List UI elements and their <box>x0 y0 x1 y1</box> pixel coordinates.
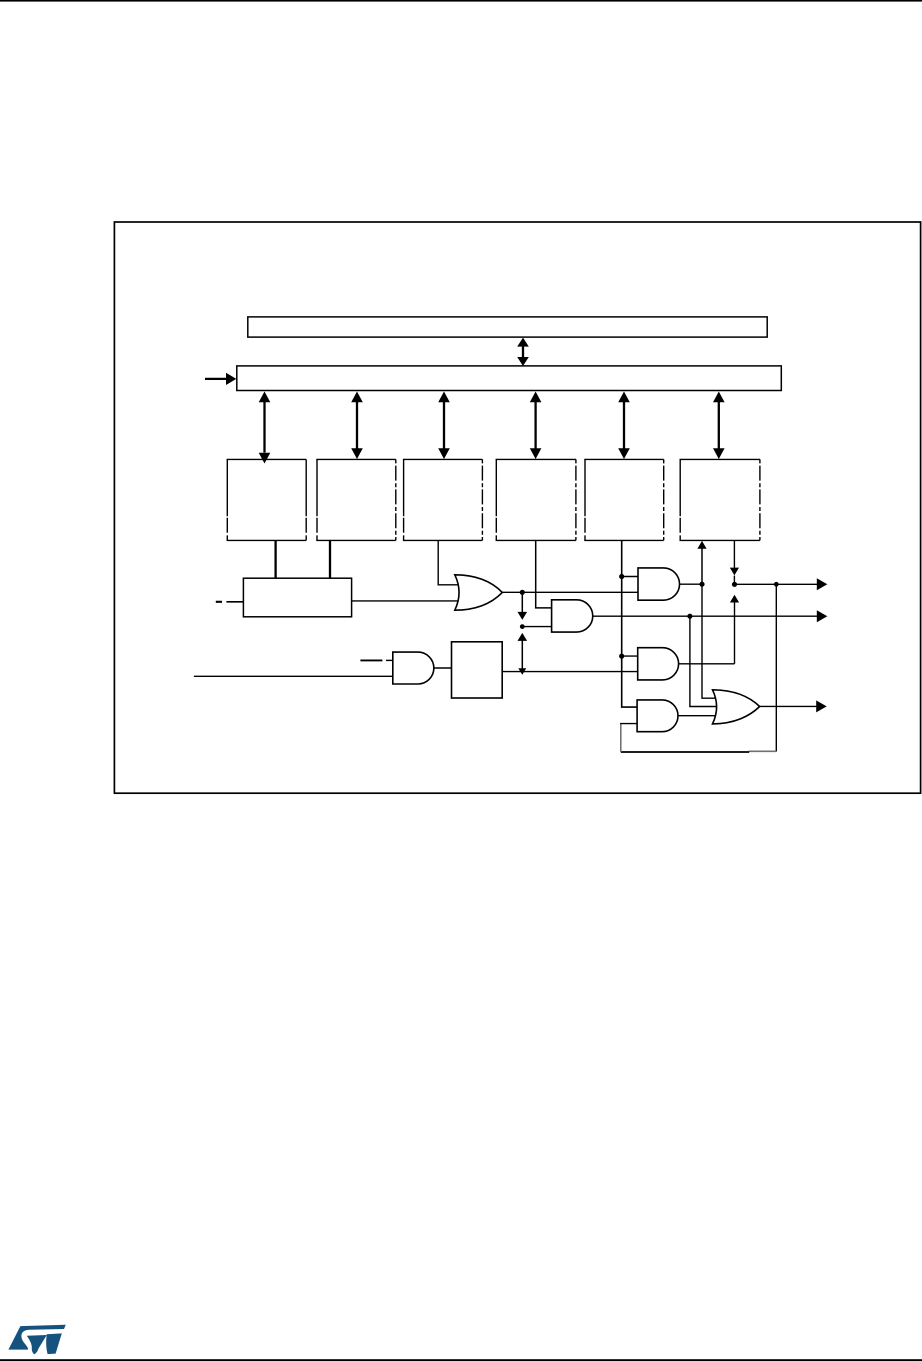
junction dot node 626 <box>520 624 525 629</box>
wire node to AND3 top input <box>622 655 638 657</box>
junction dot AND2 line <box>687 614 692 619</box>
AND gate U2 <box>552 600 593 632</box>
wire AND2 output line to output arrow 2 <box>593 610 828 622</box>
wire box5 long vertical to AND4 top input <box>622 540 637 707</box>
register box 3 <box>403 459 483 540</box>
figure frame <box>114 222 920 793</box>
wire node down to OR2 top input <box>702 584 718 698</box>
AND gate U7 <box>393 652 434 684</box>
bus double arrow 4 <box>530 392 542 460</box>
wire AND4 output to OR2 bottom input <box>678 715 718 717</box>
wire OR1 output to AND1 <box>500 591 638 593</box>
wire box2 to prescaler <box>329 540 331 578</box>
register box 6 <box>680 459 760 540</box>
wire box3 down to OR1 top input <box>438 540 459 584</box>
wire U7 upper input stub <box>360 659 392 661</box>
junction dot AND1 output <box>699 582 704 587</box>
wire junction down to OR2 middle input <box>690 616 719 706</box>
bus double arrow 1 <box>259 392 271 464</box>
double arrow between buses <box>517 338 529 366</box>
wire box6 down with arrow to node on output line 1 <box>730 540 739 584</box>
bus double arrow 5 <box>618 392 630 460</box>
wire prescaler output to OR1 <box>352 600 460 602</box>
wire AND3 output up to node on output line 1 <box>679 595 739 664</box>
wire node down to capture line with arrows <box>518 633 528 675</box>
wire node up-arrow into box6 <box>697 541 706 584</box>
ST logo <box>8 1325 65 1354</box>
wire feedback up into AND4 bottom input <box>620 724 637 752</box>
register box 2 <box>316 459 396 540</box>
header rule <box>0 0 922 2</box>
junction dot OR1 output <box>520 590 525 595</box>
wire feedback vertical from output line 1 <box>775 584 777 751</box>
AND gate U3 <box>638 648 679 680</box>
wire box1 to prescaler <box>274 540 276 578</box>
wire node to AND1 top input <box>622 576 638 578</box>
input arrow fcpu into interface bar <box>205 373 236 385</box>
register box 5 <box>584 459 663 540</box>
bus double arrow 6 <box>713 392 725 460</box>
prescaler box <box>243 578 351 617</box>
edge detect box <box>452 642 503 698</box>
prescaler input stub <box>216 601 244 603</box>
OR gate U6 <box>713 690 760 724</box>
wire node to AND2 bottom input <box>522 626 551 628</box>
junction dot AND3 top input <box>619 654 624 659</box>
wire U7 lower input long line <box>194 675 393 677</box>
bus double arrow 3 <box>438 392 450 460</box>
bus double arrow 2 <box>351 392 363 460</box>
wire U7 output to edge detect box <box>434 667 452 669</box>
wire OR1-output junction down arrow <box>518 592 528 620</box>
wire capture line from detect box to AND3 bottom input <box>502 671 638 673</box>
junction dot AND1 top input <box>619 574 624 579</box>
OR gate U5 <box>455 575 503 610</box>
register box 1 <box>227 459 307 540</box>
bus bar peripheral-interface <box>237 366 782 391</box>
register box 4 <box>496 459 576 540</box>
junction dot line1 node <box>732 582 737 587</box>
wire box4 down to AND2 top input <box>536 540 552 608</box>
footer rule <box>0 1359 922 1361</box>
bus bar internal-bus <box>248 317 767 337</box>
AND gate U4 <box>637 700 678 732</box>
wire feedback bottom run <box>621 750 777 753</box>
wire output line 1 with arrow <box>735 578 828 590</box>
junction dot feedback tap <box>774 582 779 587</box>
AND gate U1 <box>638 568 680 600</box>
wire OR2 output with arrow 3 <box>760 700 827 712</box>
wire AND1 output to node <box>680 583 702 585</box>
